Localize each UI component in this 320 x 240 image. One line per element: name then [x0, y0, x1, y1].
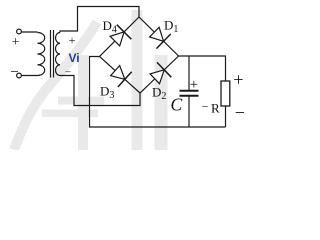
- svg-text:+: +: [12, 35, 20, 50]
- svg-text:R: R: [211, 101, 220, 116]
- svg-text:+: +: [69, 33, 76, 47]
- svg-text:Vi: Vi: [69, 51, 80, 65]
- svg-text:−: −: [202, 100, 209, 114]
- svg-text:−: −: [10, 65, 18, 81]
- svg-text:+: +: [190, 77, 198, 93]
- svg-text:−: −: [235, 102, 245, 122]
- svg-text:−: −: [65, 66, 71, 78]
- svg-text:C: C: [171, 95, 183, 115]
- svg-text:+: +: [233, 70, 243, 90]
